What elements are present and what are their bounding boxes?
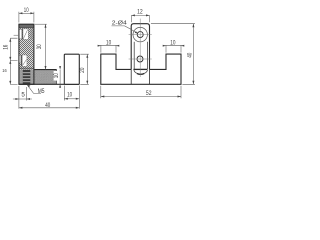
svg-text:5: 5 (21, 91, 25, 98)
svg-text:10: 10 (24, 7, 29, 14)
svg-text:M5: M5 (38, 88, 45, 95)
svg-text:16: 16 (2, 68, 7, 73)
svg-text:16: 16 (3, 44, 10, 50)
svg-text:52: 52 (146, 90, 152, 97)
svg-text:40: 40 (187, 52, 194, 58)
svg-text:10: 10 (67, 91, 72, 98)
svg-text:10: 10 (106, 39, 112, 46)
svg-text:10: 10 (53, 73, 60, 79)
svg-text:10: 10 (170, 39, 176, 46)
svg-text:20: 20 (79, 67, 86, 73)
svg-text:30: 30 (36, 44, 43, 49)
svg-text:12: 12 (137, 9, 143, 16)
svg-text:40: 40 (45, 102, 50, 109)
